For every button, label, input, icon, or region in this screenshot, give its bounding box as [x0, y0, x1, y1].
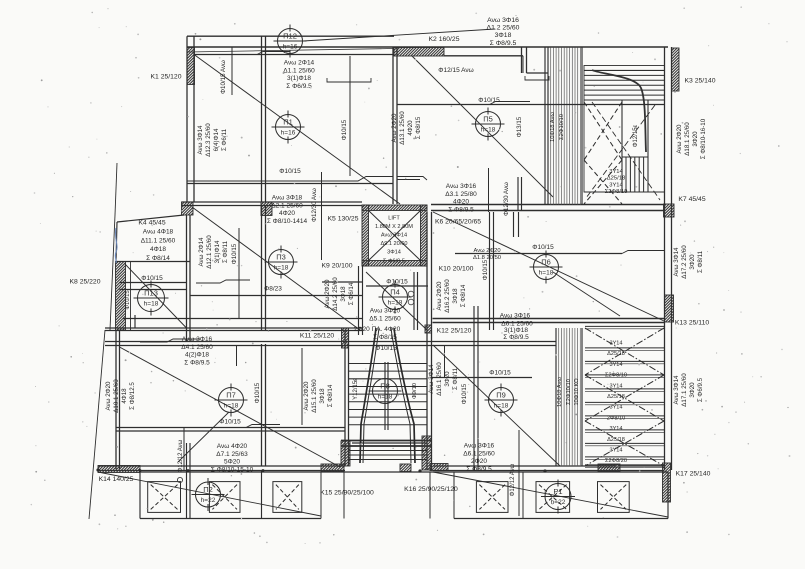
- svg-text:Ανω 3Φ16: Ανω 3Φ16: [464, 443, 495, 450]
- svg-text:Δ16.2 25/60: Δ16.2 25/60: [444, 279, 451, 313]
- svg-text:3Y14: 3Y14: [609, 182, 623, 188]
- svg-text:Δ12.3 25/60: Δ12.3 25/60: [205, 123, 212, 157]
- svg-text:10Φ18 Ανω: 10Φ18 Ανω: [557, 377, 563, 407]
- svg-text:Δ2.1 25/60: Δ2.1 25/60: [271, 202, 303, 209]
- svg-text:Φ10/15: Φ10/15: [532, 244, 554, 251]
- svg-text:3Φ20: 3Φ20: [444, 371, 451, 387]
- svg-text:Ανω 2Φ20: Ανω 2Φ20: [303, 381, 310, 410]
- svg-text:Π12: Π12: [283, 32, 297, 41]
- svg-text:Δ1.1 25/60: Δ1.1 25/60: [283, 67, 315, 74]
- svg-text:Δ9.1 20/60: Δ9.1 20/60: [380, 241, 407, 247]
- svg-text:Σ Φ6/14: Σ Φ6/14: [348, 282, 355, 305]
- svg-text:Π7: Π7: [226, 391, 236, 400]
- svg-text:Δ1.2 25/60: Δ1.2 25/60: [487, 25, 520, 32]
- svg-text:K15 25/90/25/100: K15 25/90/25/100: [320, 489, 374, 496]
- svg-text:3Φ18: 3Φ18: [340, 286, 347, 302]
- svg-text:Ανω 3Φ18: Ανω 3Φ18: [272, 195, 303, 202]
- svg-text:2Φ8/10: 2Φ8/10: [607, 415, 625, 421]
- svg-text:Φ10/15: Φ10/15: [461, 383, 468, 404]
- svg-text:h=18: h=18: [144, 301, 159, 308]
- svg-text:h=22: h=22: [201, 497, 216, 504]
- svg-text:10Φ18 Ανω: 10Φ18 Ανω: [550, 112, 556, 142]
- svg-text:3Y14: 3Y14: [609, 448, 622, 454]
- svg-text:10Φ10 ΚΟ: 10Φ10 ΚΟ: [574, 378, 580, 406]
- svg-text:Φ12/12 Ανω: Φ12/12 Ανω: [178, 439, 184, 472]
- svg-text:Δ5.1 25/60: Δ5.1 25/60: [369, 315, 401, 322]
- svg-text:3Y14: 3Y14: [609, 362, 622, 368]
- svg-text:3Y14: 3Y14: [609, 383, 622, 389]
- svg-text:Σ Φ8/9.5: Σ Φ8/9.5: [184, 360, 210, 367]
- svg-text:Δ16.1 25/60: Δ16.1 25/60: [436, 362, 443, 396]
- svg-text:Φ10/15: Φ10/15: [279, 168, 301, 175]
- svg-text:Φ12/12 Ανω: Φ12/12 Ανω: [510, 463, 516, 496]
- svg-text:K6 20/65/20/65: K6 20/65/20/65: [435, 218, 481, 225]
- svg-text:Π3: Π3: [276, 253, 286, 262]
- svg-text:Σ Φ6/11: Σ Φ6/11: [221, 128, 228, 151]
- svg-text:Π9: Π9: [496, 391, 506, 400]
- svg-text:Δ18.1 25/60: Δ18.1 25/60: [684, 122, 691, 156]
- svg-text:h=16: h=16: [283, 44, 298, 51]
- svg-text:3Φ14: 3Φ14: [387, 250, 401, 256]
- svg-text:Φ10/15 Ανω: Φ10/15 Ανω: [220, 60, 227, 94]
- svg-text:3Φ20: 3Φ20: [689, 254, 696, 270]
- svg-text:Ανω 3Φ20: Ανω 3Φ20: [370, 308, 401, 315]
- svg-text:Δ25/18: Δ25/18: [607, 394, 625, 400]
- svg-text:h=16: h=16: [281, 130, 296, 137]
- svg-text:Ανω 2Φ20: Ανω 2Φ20: [105, 381, 112, 410]
- svg-text:Ανω 3Φ14: Ανω 3Φ14: [381, 233, 407, 239]
- svg-text:Φ8/23: Φ8/23: [264, 286, 282, 293]
- svg-text:1.80Μ Χ 2.80Μ: 1.80Μ Χ 2.80Μ: [375, 224, 413, 230]
- svg-text:K10 20/100: K10 20/100: [439, 265, 474, 272]
- svg-text:h=18: h=18: [494, 403, 509, 410]
- svg-text:Δ13.1 25/60: Δ13.1 25/60: [399, 111, 406, 145]
- svg-text:Σ2Φ8/20: Σ2Φ8/20: [605, 458, 627, 464]
- svg-text:K12 25/120: K12 25/120: [437, 327, 472, 334]
- svg-text:6(4)Φ14: 6(4)Φ14: [213, 128, 220, 151]
- svg-text:Φ12/15 Ανω: Φ12/15 Ανω: [438, 67, 473, 74]
- svg-text:K11 25/120: K11 25/120: [300, 332, 334, 339]
- svg-text:Φ10/15: Φ10/15: [478, 97, 500, 104]
- svg-text:Σ Φ6/9.5: Σ Φ6/9.5: [697, 377, 704, 402]
- svg-text:Φ10/15: Φ10/15: [375, 345, 397, 352]
- svg-text:Δ25/18: Δ25/18: [607, 437, 625, 443]
- svg-text:Φ9/10: Φ9/10: [412, 383, 418, 399]
- svg-text:Π4: Π4: [390, 288, 400, 297]
- svg-text:Π1: Π1: [283, 118, 293, 127]
- svg-text:Σ Φ8/10-1414: Σ Φ8/10-1414: [267, 218, 308, 225]
- svg-text:Φ10/15: Φ10/15: [254, 382, 261, 403]
- svg-text:Φ13/15: Φ13/15: [516, 116, 523, 137]
- svg-text:Ανω 2Φ14: Ανω 2Φ14: [198, 237, 205, 266]
- svg-text:Σ Φ8/15: Σ Φ8/15: [373, 334, 397, 341]
- svg-text:Ανω 3Φ14: Ανω 3Φ14: [673, 247, 680, 276]
- svg-text:Φ10/15: Φ10/15: [489, 370, 511, 377]
- svg-text:Π13: Π13: [144, 289, 158, 298]
- svg-text:Ανω 2Φ14: Ανω 2Φ14: [284, 60, 315, 67]
- svg-text:Ανω 2Φ20: Ανω 2Φ20: [473, 248, 500, 254]
- svg-text:Φ10/15: Φ10/15: [231, 243, 238, 264]
- svg-text:3(1)Φ18: 3(1)Φ18: [504, 327, 528, 334]
- svg-text:Ανω 3Φ14: Ανω 3Φ14: [428, 364, 435, 393]
- svg-text:Φ10/15: Φ10/15: [219, 419, 241, 426]
- svg-text:3Φ20: 3Φ20: [689, 382, 696, 398]
- svg-text:Σ Φ8/12.5: Σ Φ8/12.5: [129, 382, 136, 410]
- svg-text:Δ17.2 25/60: Δ17.2 25/60: [681, 245, 688, 279]
- svg-text:Ανω 3Φ16: Ανω 3Φ16: [487, 17, 519, 24]
- svg-text:Ανω 2Φ20: Ανω 2Φ20: [391, 113, 398, 142]
- svg-text:Δ10.1 25/60: Δ10.1 25/60: [113, 379, 120, 413]
- svg-text:Φ10/15: Φ10/15: [125, 290, 131, 309]
- svg-text:2Φ20 ΠΛ. 4Φ20: 2Φ20 ΠΛ. 4Φ20: [354, 326, 401, 333]
- svg-text:Σ Φ8/9.5: Σ Φ8/9.5: [448, 207, 474, 214]
- svg-text:2Φ20: 2Φ20: [471, 458, 487, 465]
- svg-text:Π6: Π6: [541, 258, 551, 267]
- svg-text:Σ Φ8/9.5: Σ Φ8/9.5: [490, 40, 517, 47]
- svg-text:Δ12.1 25/60: Δ12.1 25/60: [206, 235, 213, 269]
- svg-text:4Φ18: 4Φ18: [121, 388, 128, 404]
- svg-text:Σ Φ6/9.5: Σ Φ6/9.5: [383, 258, 405, 264]
- svg-text:Υ12/15ε: Υ12/15ε: [353, 378, 359, 400]
- svg-text:3Y14: 3Y14: [609, 169, 623, 175]
- svg-text:Σ Φ6/9.5: Σ Φ6/9.5: [286, 83, 312, 90]
- svg-text:K8 25/220: K8 25/220: [70, 278, 101, 285]
- svg-text:Σ2Φ8/10: Σ2Φ8/10: [605, 189, 628, 195]
- svg-text:h=18: h=18: [378, 394, 393, 401]
- svg-text:3(1)Φ18: 3(1)Φ18: [287, 75, 311, 82]
- svg-text:3Φ18: 3Φ18: [452, 288, 459, 304]
- svg-text:K9 20/100: K9 20/100: [322, 262, 353, 269]
- svg-text:K17 25/140: K17 25/140: [676, 470, 711, 477]
- svg-text:Σ Φ8/15: Σ Φ8/15: [415, 116, 422, 139]
- svg-text:Σ Φ8/9.5: Σ Φ8/9.5: [466, 466, 492, 473]
- svg-text:K16 25/90/25/120: K16 25/90/25/120: [404, 486, 458, 493]
- svg-text:Δ15.1 25/60: Δ15.1 25/60: [311, 379, 318, 413]
- svg-text:Π2: Π2: [203, 485, 213, 494]
- svg-text:Σ2Φ10/10: Σ2Φ10/10: [559, 114, 565, 140]
- svg-text:K1 25/120: K1 25/120: [151, 73, 182, 80]
- svg-text:Ανω 3Φ14: Ανω 3Φ14: [197, 125, 204, 154]
- svg-text:Ανω 2Φ20: Ανω 2Φ20: [324, 279, 331, 308]
- svg-text:3Y14: 3Y14: [609, 341, 622, 347]
- svg-text:Σ Φ8/10-16-10: Σ Φ8/10-16-10: [700, 118, 707, 159]
- svg-text:h=18: h=18: [539, 270, 554, 277]
- svg-text:Σ Φ8/14: Σ Φ8/14: [327, 384, 334, 407]
- svg-text:Δ6.1 25/60: Δ6.1 25/60: [463, 450, 495, 457]
- svg-text:Δ25/18: Δ25/18: [607, 176, 625, 182]
- svg-text:4Φ18: 4Φ18: [150, 246, 166, 253]
- svg-text:Ανω 4Φ18: Ανω 4Φ18: [143, 228, 174, 235]
- svg-text:h=18: h=18: [388, 300, 403, 307]
- svg-text:4Φ20: 4Φ20: [453, 199, 469, 206]
- svg-text:Δ7.1 25/63: Δ7.1 25/63: [216, 451, 248, 458]
- svg-text:K14 140/25: K14 140/25: [99, 476, 134, 483]
- svg-text:Φ10/15: Φ10/15: [341, 119, 348, 140]
- svg-text:Σ Φ8/14: Σ Φ8/14: [460, 284, 467, 307]
- svg-text:3Φ18: 3Φ18: [495, 32, 512, 39]
- svg-text:Π5: Π5: [483, 115, 493, 124]
- svg-text:K5 130/25: K5 130/25: [328, 215, 359, 222]
- svg-text:Σ Φ8/11: Σ Φ8/11: [452, 367, 459, 390]
- svg-text:K2 160/25: K2 160/25: [429, 36, 460, 43]
- svg-text:Ανω 3Φ16: Ανω 3Φ16: [182, 336, 213, 343]
- svg-text:h=22: h=22: [551, 499, 566, 506]
- svg-text:LIFT: LIFT: [388, 215, 400, 221]
- svg-text:Ανω 4Φ20: Ανω 4Φ20: [217, 443, 248, 450]
- svg-text:Ρ1: Ρ1: [553, 487, 562, 496]
- svg-text:5Φ20: 5Φ20: [224, 459, 240, 466]
- svg-text:4(2)Φ18: 4(2)Φ18: [185, 352, 209, 359]
- svg-text:Σ Φ8/14: Σ Φ8/14: [146, 255, 170, 262]
- svg-text:Φ12/15ε: Φ12/15ε: [633, 124, 639, 147]
- svg-text:Δ4.1 25/60: Δ4.1 25/60: [181, 344, 213, 351]
- svg-text:3Φ20: 3Φ20: [692, 131, 699, 147]
- svg-text:3Φ18: 3Φ18: [319, 388, 326, 404]
- svg-text:h=18: h=18: [274, 265, 289, 272]
- svg-text:Φ10/15: Φ10/15: [141, 275, 163, 282]
- svg-text:3Y14: 3Y14: [609, 405, 622, 411]
- svg-text:3Y14: 3Y14: [609, 426, 622, 432]
- svg-text:Ανω 3Φ14: Ανω 3Φ14: [673, 375, 680, 404]
- svg-text:Ανω 2Φ20: Ανω 2Φ20: [436, 281, 443, 310]
- svg-text:Ανω 3Φ16: Ανω 3Φ16: [500, 313, 531, 320]
- svg-text:Δ3.1 25/80: Δ3.1 25/80: [445, 191, 477, 198]
- svg-text:Φ12/30 Ανω: Φ12/30 Ανω: [311, 188, 318, 222]
- svg-text:Δ17.1 25/60: Δ17.1 25/60: [681, 373, 688, 407]
- svg-text:Δ25/18: Δ25/18: [607, 351, 625, 357]
- svg-text:Ανω 3Φ16: Ανω 3Φ16: [446, 183, 477, 190]
- svg-text:h=18: h=18: [481, 127, 496, 134]
- svg-text:Σ2Φ8/10: Σ2Φ8/10: [605, 373, 627, 379]
- svg-text:Σ2Φ10/10: Σ2Φ10/10: [566, 379, 572, 405]
- svg-text:Ανω 2Φ20: Ανω 2Φ20: [676, 124, 683, 153]
- svg-text:4Φ20: 4Φ20: [407, 120, 414, 136]
- svg-text:Φ10/15: Φ10/15: [386, 279, 408, 286]
- svg-text:h=18: h=18: [224, 403, 239, 410]
- svg-text:Δ11.1 25/60: Δ11.1 25/60: [141, 237, 176, 244]
- svg-text:Σ Φ8/11: Σ Φ8/11: [222, 240, 229, 263]
- svg-text:Φ10/15: Φ10/15: [482, 259, 489, 280]
- svg-text:Σ Φ8/11: Σ Φ8/11: [697, 250, 704, 273]
- svg-text:3(1)Φ14: 3(1)Φ14: [214, 240, 221, 263]
- svg-text:K3 25/140: K3 25/140: [685, 77, 716, 84]
- svg-text:Π8: Π8: [380, 382, 390, 391]
- svg-text:Σ Φ8/9.5: Σ Φ8/9.5: [503, 334, 529, 341]
- svg-text:Φ12/30 Ανω: Φ12/30 Ανω: [503, 182, 510, 216]
- svg-text:4Φ20: 4Φ20: [279, 210, 295, 217]
- svg-text:K13 25/110: K13 25/110: [675, 319, 709, 326]
- svg-text:Σ Φ8/10-15-10: Σ Φ8/10-15-10: [211, 467, 254, 474]
- svg-text:K7 45/45: K7 45/45: [678, 196, 705, 203]
